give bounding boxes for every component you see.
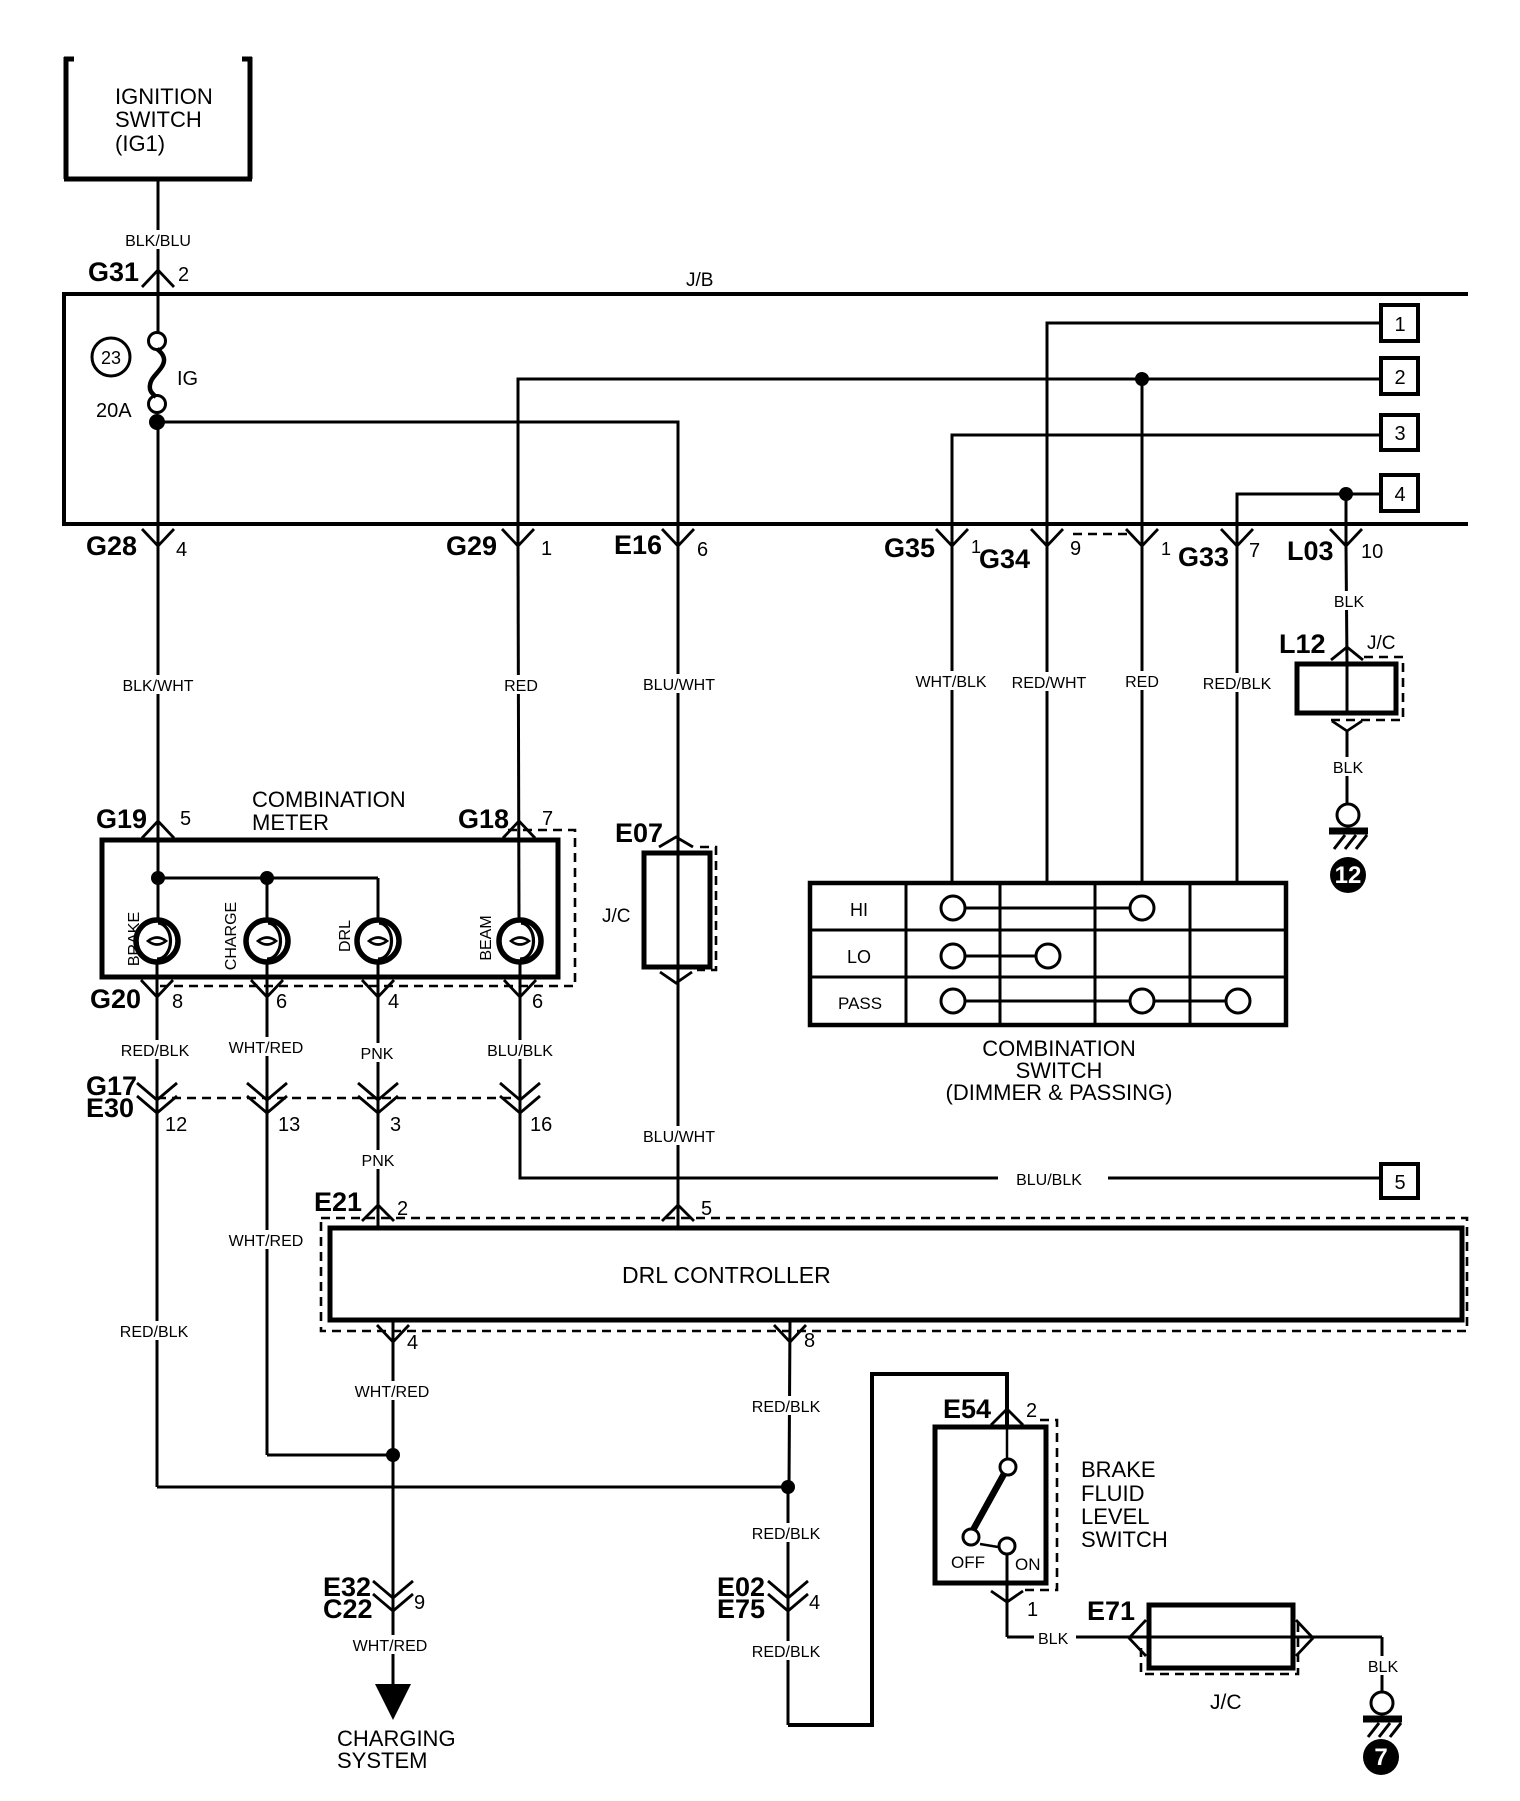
svg-text:J/C: J/C (1210, 1691, 1242, 1714)
svg-text:BLU/WHT: BLU/WHT (643, 1129, 715, 1146)
svg-text:9: 9 (1070, 538, 1081, 560)
svg-text:1: 1 (541, 538, 552, 560)
wire L12 to ground, BLK (1330, 731, 1366, 804)
connector G17/E30 pin 13 (247, 1083, 300, 1136)
wire G28 to combination meter, BLK/WHT (119, 546, 197, 920)
svg-text:8: 8 (804, 1330, 815, 1352)
svg-text:7: 7 (542, 808, 553, 830)
terminal box 5 (1381, 1164, 1418, 1198)
connector E02/E75 pin 4 (717, 1572, 820, 1624)
wire DRL 8 to E54, RED/BLK (748, 1320, 1007, 1725)
svg-text:RED: RED (1125, 674, 1159, 691)
junction node charging (386, 1448, 400, 1462)
svg-text:HI: HI (850, 900, 868, 920)
fuse 23 IG 20A (92, 296, 198, 430)
svg-text:LEVEL: LEVEL (1081, 1504, 1150, 1529)
svg-text:G35: G35 (884, 533, 935, 563)
wire meter 8 to junction, RED/BLK (116, 997, 193, 1487)
svg-text:12: 12 (165, 1114, 187, 1136)
connector G28 pin 4 (86, 529, 187, 561)
connector G29 pin 1 (446, 529, 552, 561)
svg-text:J/B: J/B (686, 270, 713, 291)
svg-text:10: 10 (1361, 541, 1383, 563)
svg-text:SWITCH: SWITCH (1081, 1527, 1168, 1552)
meter connector pin 6 (beam) (504, 980, 543, 1013)
svg-text:12: 12 (1335, 862, 1362, 889)
ignition switch box (IG1) (64, 57, 252, 179)
svg-text:RED/BLK: RED/BLK (752, 1644, 821, 1661)
wire fuse output to G28 (vertical in J/B) (157, 422, 160, 546)
junction connector E71 J/C (1087, 1596, 1313, 1714)
connector G34 pin 1 (second) (1126, 529, 1171, 559)
svg-text:ON: ON (1015, 1555, 1041, 1574)
wire G29 to meter BEAM, RED (502, 546, 540, 920)
connector G17/E30 pin 3 (358, 1083, 401, 1136)
wire fuse output to E16 pin (158, 422, 678, 546)
wire G33 to combination switch, RED/BLK (1199, 546, 1275, 885)
indicator lamp CHARGE (223, 902, 288, 996)
connector G35 pin 1 (884, 529, 981, 563)
junction node on box-4 line (1339, 487, 1353, 501)
svg-text:G18: G18 (458, 804, 509, 834)
svg-text:G28: G28 (86, 531, 137, 561)
svg-text:G33: G33 (1178, 542, 1229, 572)
svg-text:C22: C22 (323, 1594, 373, 1624)
ground id ball 7 (1363, 1739, 1399, 1775)
svg-text:3: 3 (1394, 423, 1405, 445)
connector G31 pin 2 (88, 257, 189, 287)
connector G20 pin 8 (90, 980, 183, 1014)
connector G34 pin 9 (979, 529, 1081, 574)
wire node to L03 pin (1345, 494, 1348, 546)
svg-text:RED/BLK: RED/BLK (1203, 676, 1272, 693)
switch contacts HI row (941, 896, 1154, 920)
svg-text:13: 13 (278, 1114, 300, 1136)
svg-text:OFF: OFF (951, 1553, 985, 1572)
svg-text:RED/BLK: RED/BLK (120, 1324, 189, 1341)
connector G33 pin 7 (1178, 529, 1260, 572)
wire G33 pin to terminal box 4 (1237, 494, 1382, 546)
svg-text:23: 23 (101, 348, 121, 368)
J/B junction block box (64, 270, 1468, 524)
svg-text:IG: IG (177, 368, 198, 390)
terminal box 3 (1381, 415, 1418, 450)
charging system arrow (337, 1684, 456, 1773)
wire pin1 to combination switch, RED (1123, 546, 1162, 885)
junction node red/blk (781, 1480, 795, 1494)
svg-text:RED/BLK: RED/BLK (752, 1526, 821, 1543)
connector E54 pin 1 (991, 1591, 1038, 1621)
svg-text:BLK: BLK (1333, 760, 1364, 777)
svg-text:8: 8 (172, 991, 183, 1013)
brake fluid level switch caption (1081, 1457, 1168, 1552)
svg-text:5: 5 (1394, 1172, 1405, 1194)
wire ignition switch to J/B, BLK/BLU (121, 179, 195, 296)
svg-text:4: 4 (809, 1592, 820, 1614)
svg-text:4: 4 (407, 1332, 418, 1354)
connector G17/E30 pin 12 (137, 1083, 187, 1136)
wire DRL 4 to charging system, WHT/RED (350, 1320, 432, 1684)
svg-text:E30: E30 (86, 1093, 134, 1123)
DRL controller box (321, 1218, 1467, 1331)
wire G29 pin to terminal box 2 (518, 379, 1381, 546)
connector G18 pin 7 (458, 804, 553, 838)
svg-text:6: 6 (532, 991, 543, 1013)
svg-text:16: 16 (530, 1114, 552, 1136)
dashed link G34 pins (1073, 533, 1129, 536)
svg-text:E75: E75 (717, 1594, 765, 1624)
svg-text:DRL: DRL (337, 920, 354, 952)
svg-text:(IG1): (IG1) (115, 131, 165, 156)
svg-text:WHT/RED: WHT/RED (229, 1040, 304, 1057)
terminal box 4 (1381, 475, 1418, 511)
wire E71 to ground, BLK (1364, 1637, 1401, 1692)
svg-text:PASS: PASS (838, 994, 882, 1013)
svg-text:2: 2 (178, 264, 189, 286)
connector E32/C22 pin 9 (323, 1572, 425, 1624)
wire G34 pin to terminal box 1 (1047, 323, 1381, 546)
svg-text:CHARGE: CHARGE (223, 902, 240, 970)
svg-text:6: 6 (697, 539, 708, 561)
svg-text:7: 7 (1374, 1744, 1387, 1771)
indicator lamp BRAKE (126, 912, 178, 996)
wire G35 to combination switch, WHT/BLK (912, 546, 990, 885)
svg-text:BEAM: BEAM (478, 915, 495, 960)
svg-text:IGNITION: IGNITION (115, 84, 213, 109)
combination switch caption (946, 1036, 1173, 1105)
indicator lamp DRL (337, 920, 399, 996)
svg-text:3: 3 (390, 1114, 401, 1136)
wire meter 6 to terminal 5, BLU/BLK (483, 997, 1381, 1189)
svg-text:G20: G20 (90, 984, 141, 1014)
svg-text:20A: 20A (96, 400, 132, 422)
DRL pin 5 connector (662, 1198, 712, 1221)
svg-text:LO: LO (847, 947, 871, 967)
svg-text:2: 2 (1026, 1400, 1037, 1422)
connector E21 pin 2 (314, 1187, 408, 1221)
svg-text:WHT/RED: WHT/RED (229, 1233, 304, 1250)
svg-text:E21: E21 (314, 1187, 362, 1217)
brake fluid level switch E54 box (935, 1420, 1057, 1637)
svg-text:BLK: BLK (1334, 594, 1365, 611)
svg-text:(DIMMER & PASSING): (DIMMER & PASSING) (946, 1080, 1173, 1105)
wire node to connector pin 1 (x=1142) (1141, 379, 1144, 546)
svg-text:4: 4 (388, 991, 399, 1013)
svg-text:BLK/WHT: BLK/WHT (122, 678, 193, 695)
svg-text:4: 4 (1394, 484, 1405, 506)
combination switch box (810, 883, 1286, 1025)
svg-text:6: 6 (276, 991, 287, 1013)
svg-text:COMBINATION: COMBINATION (252, 787, 406, 812)
svg-text:7: 7 (1249, 540, 1260, 562)
wire G34 to combination switch, RED/WHT (1009, 546, 1088, 885)
svg-text:RED/BLK: RED/BLK (121, 1043, 190, 1060)
svg-text:BRAKE: BRAKE (126, 912, 143, 966)
connector E54 pin 2 (943, 1394, 1037, 1425)
svg-text:E71: E71 (1087, 1596, 1135, 1626)
svg-text:RED: RED (504, 678, 538, 695)
svg-text:DRL CONTROLLER: DRL CONTROLLER (622, 1262, 831, 1288)
svg-text:RED/BLK: RED/BLK (752, 1399, 821, 1416)
svg-text:L12: L12 (1279, 629, 1326, 659)
meter connector pin 4 (drl) (362, 980, 399, 1013)
svg-text:BLU/BLK: BLU/BLK (487, 1043, 553, 1060)
terminal box 2 (1381, 358, 1418, 394)
svg-text:J/C: J/C (1367, 633, 1396, 654)
svg-text:BLU/WHT: BLU/WHT (643, 677, 715, 694)
wire G35 pin to terminal box 3 (952, 435, 1381, 546)
svg-text:2: 2 (1394, 367, 1405, 389)
wire meter 6 join to charging wire (267, 1454, 393, 1457)
svg-text:E07: E07 (615, 818, 663, 848)
svg-text:WHT/RED: WHT/RED (353, 1638, 428, 1655)
indicator lamp BEAM (478, 915, 541, 996)
svg-text:E54: E54 (943, 1394, 991, 1424)
connector G19 pin 5 (96, 804, 191, 838)
ground id ball 12 (1330, 857, 1366, 893)
ground G7 (1363, 1692, 1402, 1737)
svg-text:METER: METER (252, 810, 329, 835)
combination meter box (102, 830, 575, 986)
svg-text:J/C: J/C (602, 906, 631, 927)
svg-text:G29: G29 (446, 531, 497, 561)
meter connector pin 6 (charge) (251, 980, 287, 1013)
junction node on box-2 line (1135, 372, 1149, 386)
svg-text:BLK: BLK (1368, 1659, 1399, 1676)
svg-text:G19: G19 (96, 804, 147, 834)
wire meter 4 to DRL pin 2, PNK (357, 997, 398, 1228)
svg-text:SYSTEM: SYSTEM (337, 1748, 427, 1773)
svg-text:9: 9 (414, 1592, 425, 1614)
DRL pin 4 connector (377, 1325, 418, 1354)
svg-text:PNK: PNK (362, 1153, 395, 1170)
junction connector L12 J/C (1279, 629, 1403, 731)
svg-text:BLU/BLK: BLU/BLK (1016, 1172, 1082, 1189)
svg-text:L03: L03 (1287, 536, 1334, 566)
svg-text:SWITCH: SWITCH (115, 107, 202, 132)
svg-text:WHT/BLK: WHT/BLK (915, 674, 986, 691)
svg-text:WHT/RED: WHT/RED (355, 1384, 430, 1401)
svg-text:BRAKE: BRAKE (1081, 1457, 1156, 1482)
svg-text:1: 1 (1394, 314, 1405, 336)
svg-text:RED/WHT: RED/WHT (1012, 675, 1087, 692)
svg-text:FLUID: FLUID (1081, 1481, 1145, 1506)
junction node charge lamp (260, 871, 274, 885)
connector L03 pin 10 (1287, 529, 1383, 566)
ground G12 (1329, 804, 1368, 849)
svg-text:E16: E16 (614, 530, 662, 560)
wire meter 6 to junction, WHT/RED (226, 997, 306, 1455)
combination meter title (252, 787, 406, 835)
svg-text:4: 4 (176, 539, 187, 561)
switch contacts PASS row (941, 989, 1250, 1013)
wire E54 to E71, BLK (1007, 1631, 1382, 1648)
connector G17/E30 row (86, 1071, 520, 1123)
svg-text:G31: G31 (88, 257, 139, 287)
svg-text:1: 1 (1161, 539, 1171, 559)
svg-text:5: 5 (180, 808, 191, 830)
wire E16 to DRL controller pin 5, BLU/WHT (641, 546, 717, 1228)
meter internal bus wire (158, 878, 378, 920)
DRL pin 8 connector (774, 1325, 815, 1352)
junction node brake lamp (151, 871, 165, 885)
connector E16 pin 6 (614, 529, 708, 561)
svg-text:G34: G34 (979, 544, 1030, 574)
wire meter 8 join to red/blk wire (157, 1486, 788, 1489)
svg-text:1: 1 (1027, 1599, 1038, 1621)
wire L03 to L12 junction connector, BLK (1330, 546, 1367, 664)
svg-text:PNK: PNK (361, 1046, 394, 1063)
switch contacts LO row (941, 944, 1060, 968)
connector G17/E30 pin 16 (500, 1083, 552, 1136)
terminal box 1 (1381, 305, 1418, 341)
junction connector E07 J/C (602, 818, 716, 983)
svg-text:BLK: BLK (1038, 1631, 1069, 1648)
svg-text:BLK/BLU: BLK/BLU (125, 233, 191, 250)
